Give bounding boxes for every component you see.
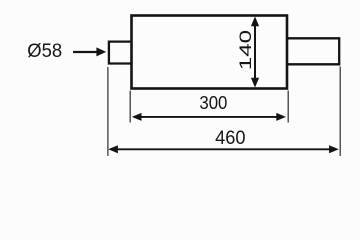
right outlet pipe <box>288 38 339 64</box>
svg-text:460: 460 <box>215 127 245 149</box>
extension line right (300) <box>287 91 289 123</box>
svg-text:300: 300 <box>199 93 227 114</box>
extension line left (460) <box>107 67 109 156</box>
dimension 140 line with arrowheads <box>254 24 256 80</box>
dimension 300 line with arrowheads <box>139 116 279 118</box>
extension line right (460) <box>339 67 341 157</box>
svg-text:Ø58: Ø58 <box>27 40 62 62</box>
svg-text:140: 140 <box>236 30 255 70</box>
leader arrow for Ø58 <box>73 51 99 53</box>
muffler body outline <box>132 16 288 89</box>
extension line left (300) <box>129 91 131 123</box>
left inlet pipe <box>109 42 131 64</box>
dimension 460 line with arrowheads <box>115 148 332 150</box>
